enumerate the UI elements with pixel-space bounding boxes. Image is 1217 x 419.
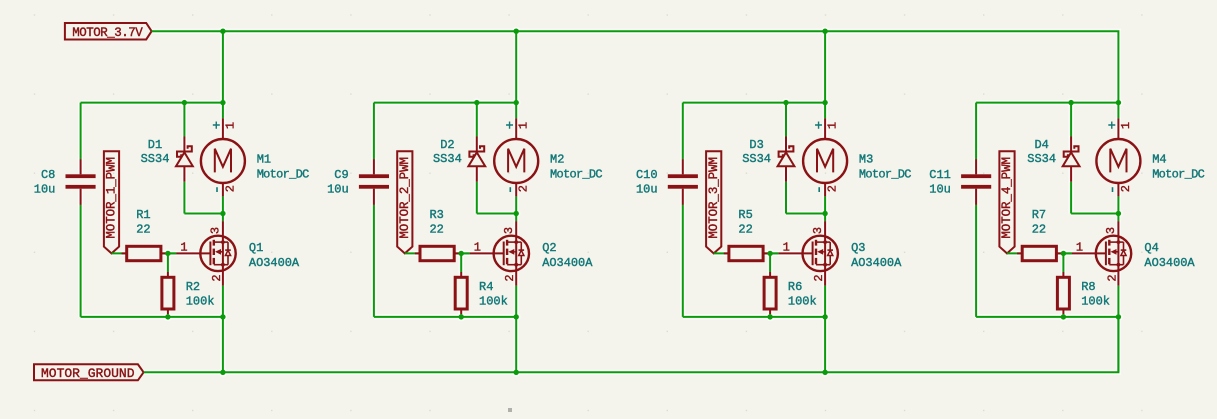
svg-text:MOTOR_4_PWM: MOTOR_4_PWM	[1000, 157, 1014, 239]
svg-text:AO3400A: AO3400A	[249, 256, 300, 270]
label D1 value SS34	[141, 138, 170, 166]
motor M1 pin 1 plus	[212, 119, 237, 134]
svg-text:M3: M3	[859, 153, 873, 167]
svg-text:R2: R2	[186, 280, 200, 294]
svg-text:D4: D4	[1034, 138, 1048, 152]
svg-text:10u: 10u	[636, 183, 658, 197]
global label MOTOR_1_PWM	[104, 151, 119, 253]
label Q1 value AO3400A	[249, 241, 300, 270]
wire lower sub-rail section 4	[976, 316, 1118, 318]
transistor Q2 AO3400A	[470, 221, 529, 286]
svg-text:D3: D3	[749, 138, 763, 152]
wire MOTOR_1_PWM to R1	[112, 252, 177, 254]
diode D4 SS34 schottky	[1063, 137, 1080, 182]
junction motor feed at top sub-rail section 4	[1116, 100, 1121, 105]
junction diode return at motor wire section 1	[220, 211, 225, 216]
svg-text:AO3400A: AO3400A	[542, 256, 593, 270]
svg-text:Motor_DC: Motor_DC	[859, 168, 912, 182]
motor M3 pin 1 plus	[814, 119, 839, 134]
wire Q1 source to lower sub-rail	[222, 286, 224, 317]
wire R6 branch	[769, 253, 771, 317]
wire R8 branch	[1062, 253, 1064, 317]
svg-text:AO3400A: AO3400A	[1144, 256, 1195, 270]
wire section 3 to ground rail	[824, 317, 826, 372]
wire gate node to Q2 gate	[461, 252, 470, 254]
svg-text:Q1: Q1	[249, 241, 263, 255]
label M4 value Motor_DC	[1152, 153, 1205, 182]
wire Q4 source to lower sub-rail	[1117, 286, 1119, 317]
svg-text:M1: M1	[257, 153, 271, 167]
Q1 pin 1 number	[180, 241, 187, 255]
svg-text:SS34: SS34	[433, 152, 462, 166]
motor M2 Motor_DC	[494, 118, 538, 196]
svg-text:1: 1	[223, 122, 237, 129]
motor M4 pin 1 plus	[1108, 119, 1133, 134]
svg-text:1: 1	[1076, 241, 1083, 255]
junction section 1 at ground rail	[220, 370, 225, 375]
wire diode D1 branch	[184, 103, 223, 214]
label M2 value Motor_DC	[550, 153, 603, 182]
junction diode D2 at top sub-rail	[474, 100, 479, 105]
wire MOTOR_3.7V top rail	[152, 31, 1119, 102]
junction section 3 at ground rail	[822, 370, 827, 375]
svg-text:MOTOR_1_PWM: MOTOR_1_PWM	[105, 157, 119, 239]
label D3 value SS34	[742, 138, 771, 166]
junction on top rail at M2 feed	[514, 29, 519, 34]
svg-text:M4: M4	[1152, 153, 1166, 167]
wire gate node to Q1 gate	[168, 252, 177, 254]
wire M2 feed from top rail	[515, 31, 517, 102]
Q4 pin 3 number	[1104, 227, 1118, 234]
wire motor M2 bottom to Q2	[515, 196, 517, 221]
svg-text:SS34: SS34	[141, 152, 170, 166]
junction Q3 source at lower sub-rail	[822, 314, 827, 319]
wire motor M4 bottom to Q4	[1117, 196, 1119, 221]
label M1 value Motor_DC	[257, 153, 310, 182]
junction gate node section 3	[767, 251, 772, 256]
svg-text:+: +	[506, 119, 514, 134]
Q3 pin 3 number	[811, 227, 825, 234]
svg-text:C11: C11	[929, 168, 951, 182]
wire section 4 to ground rail	[1117, 317, 1119, 372]
svg-text:10u: 10u	[34, 183, 56, 197]
junction motor feed at top sub-rail section 1	[220, 100, 225, 105]
svg-text:2: 2	[1105, 274, 1119, 281]
wire R2 branch	[167, 253, 169, 317]
svg-text:C10: C10	[636, 168, 658, 182]
label C8 value 10u	[34, 168, 56, 196]
capacitor C8	[66, 159, 96, 205]
global label MOTOR_GROUND	[34, 364, 144, 381]
resistor R7	[1017, 246, 1062, 260]
label C9 value 10u	[327, 168, 349, 196]
label R5 value 22	[738, 208, 752, 237]
junction diode return at motor wire section 2	[514, 211, 519, 216]
wire motor M1 top	[222, 103, 224, 119]
svg-text:SS34: SS34	[1027, 152, 1056, 166]
motor M2 pin 2 minus	[510, 185, 530, 192]
wire capacitor branch C11	[975, 103, 977, 317]
junction Q4 source at lower sub-rail	[1116, 314, 1121, 319]
Q3 pin 2 number	[812, 274, 826, 281]
svg-text:MOTOR_3_PWM: MOTOR_3_PWM	[707, 157, 721, 239]
transistor Q4 AO3400A	[1072, 221, 1131, 286]
svg-text:2: 2	[503, 274, 517, 281]
svg-text:1: 1	[826, 122, 840, 129]
svg-text:D2: D2	[440, 138, 454, 152]
motor M1 Motor_DC	[201, 118, 245, 196]
svg-text:1: 1	[783, 241, 790, 255]
junction on top rail at M1 feed	[220, 29, 225, 34]
svg-text:2: 2	[1119, 185, 1133, 192]
resistor R6	[764, 272, 776, 314]
global label MOTOR_2_PWM	[397, 151, 412, 253]
global label MOTOR_3.7V	[65, 23, 152, 40]
svg-text:3: 3	[1104, 227, 1118, 234]
wire M3 feed from top rail	[824, 31, 826, 102]
label D2 value SS34	[433, 138, 462, 166]
motor M1 pin 2 minus	[217, 185, 237, 192]
svg-text:R4: R4	[479, 280, 493, 294]
resistor R8	[1057, 272, 1069, 314]
junction diode D1 at top sub-rail	[182, 100, 187, 105]
svg-text:Motor_DC: Motor_DC	[1152, 168, 1205, 182]
junction diode return at motor wire section 4	[1116, 211, 1121, 216]
label R7 value 22	[1032, 208, 1046, 237]
svg-text:100k: 100k	[1081, 294, 1110, 308]
junction Q1 source at lower sub-rail	[220, 314, 225, 319]
svg-text:MOTOR_GROUND: MOTOR_GROUND	[41, 366, 135, 381]
svg-text:10u: 10u	[327, 183, 349, 197]
junction R6 at lower sub-rail	[767, 314, 772, 319]
Q2 pin 1 number	[474, 241, 481, 255]
svg-text:MOTOR_3.7V: MOTOR_3.7V	[72, 26, 143, 40]
junction Q2 source at lower sub-rail	[514, 314, 519, 319]
wire diode D3 branch	[786, 103, 825, 214]
junction diode D3 at top sub-rail	[783, 100, 788, 105]
svg-text:+: +	[212, 119, 220, 134]
svg-text:1: 1	[474, 241, 481, 255]
junction motor feed at top sub-rail section 2	[514, 100, 519, 105]
svg-text:2: 2	[210, 274, 224, 281]
Q2 pin 3 number	[502, 227, 516, 234]
svg-text:Q2: Q2	[542, 241, 556, 255]
label C11 value 10u	[929, 168, 951, 196]
Q1 pin 3 number	[209, 227, 223, 234]
svg-text:M2: M2	[550, 153, 564, 167]
wire capacitor branch C9	[373, 103, 375, 317]
wire Q3 source to lower sub-rail	[824, 286, 826, 317]
label R1 value 22	[136, 208, 150, 237]
Q4 pin 2 number	[1105, 274, 1119, 281]
svg-text:D1: D1	[148, 138, 162, 152]
label D4 value SS34	[1027, 138, 1056, 166]
svg-text:2: 2	[223, 185, 237, 192]
motor M4 Motor_DC	[1096, 118, 1140, 196]
wire gate node to Q3 gate	[770, 252, 779, 254]
svg-text:3: 3	[811, 227, 825, 234]
wire M1 feed from top rail	[222, 31, 224, 102]
junction section 2 at ground rail	[514, 370, 519, 375]
transistor Q1 AO3400A	[176, 221, 235, 286]
junction R4 at lower sub-rail	[459, 314, 464, 319]
svg-text:22: 22	[136, 222, 150, 236]
label R6 value 100k	[788, 280, 817, 309]
motor M4 pin 2 minus	[1113, 185, 1133, 192]
svg-text:R5: R5	[738, 208, 752, 222]
svg-text:2: 2	[826, 185, 840, 192]
wire MOTOR_GROUND bottom rail	[144, 317, 1119, 372]
resistor R4	[455, 272, 467, 314]
wire section 2 to ground rail	[515, 317, 517, 372]
label M3 value Motor_DC	[859, 153, 912, 182]
wire motor M4 top	[1117, 103, 1119, 119]
svg-text:+: +	[814, 119, 822, 134]
wire capacitor branch C10	[682, 103, 684, 317]
wire motor M2 top	[515, 103, 517, 119]
svg-text:2: 2	[517, 185, 531, 192]
svg-text:C9: C9	[334, 168, 348, 182]
junction on top rail at M3 feed	[822, 29, 827, 34]
wire lower sub-rail section 3	[683, 316, 825, 318]
svg-text:22: 22	[1032, 222, 1046, 236]
diode D1 SS34 schottky	[176, 137, 193, 182]
label Q2 value AO3400A	[542, 241, 593, 270]
svg-text:3: 3	[502, 227, 516, 234]
svg-text:22: 22	[429, 222, 443, 236]
wire motor M1 bottom to Q1	[222, 196, 224, 221]
svg-text:Q4: Q4	[1144, 241, 1158, 255]
junction R2 at lower sub-rail	[165, 314, 170, 319]
svg-text:+: +	[1108, 119, 1116, 134]
Q3 pin 1 number	[783, 241, 790, 255]
svg-text:22: 22	[738, 222, 752, 236]
svg-text:100k: 100k	[788, 294, 817, 308]
junction gate node section 4	[1061, 251, 1066, 256]
label C10 value 10u	[636, 168, 658, 196]
wire motor M3 bottom to Q3	[824, 196, 826, 221]
junction diode return at motor wire section 3	[822, 211, 827, 216]
wire top sub-rail section 3	[683, 102, 825, 104]
svg-text:MOTOR_2_PWM: MOTOR_2_PWM	[398, 157, 412, 239]
junction gate node section 1	[165, 251, 170, 256]
svg-text:1: 1	[180, 241, 187, 255]
svg-text:1: 1	[1119, 122, 1133, 129]
svg-text:C8: C8	[41, 168, 55, 182]
svg-text:1: 1	[517, 122, 531, 129]
svg-text:SS34: SS34	[742, 152, 771, 166]
global label MOTOR_3_PWM	[706, 151, 721, 253]
junction motor feed at top sub-rail section 3	[822, 100, 827, 105]
resistor R5	[724, 246, 769, 260]
svg-text:Motor_DC: Motor_DC	[257, 168, 310, 182]
wire motor M3 top	[824, 103, 826, 119]
svg-text:R3: R3	[429, 208, 443, 222]
label Q3 value AO3400A	[851, 241, 902, 270]
wire lower sub-rail section 1	[81, 316, 223, 318]
wire diode D2 branch	[477, 103, 516, 214]
svg-text:Motor_DC: Motor_DC	[550, 168, 603, 182]
label R8 value 100k	[1081, 280, 1110, 309]
Q2 pin 2 number	[503, 274, 517, 281]
resistor R3	[415, 246, 460, 260]
svg-text:10u: 10u	[929, 183, 951, 197]
svg-text:R1: R1	[136, 208, 150, 222]
svg-text:2: 2	[812, 274, 826, 281]
motor M3 Motor_DC	[803, 118, 847, 196]
resistor R1	[122, 246, 167, 260]
diode D2 SS34 schottky	[468, 137, 485, 182]
wire lower sub-rail section 2	[374, 316, 516, 318]
label R4 value 100k	[479, 280, 508, 309]
diode D3 SS34 schottky	[778, 137, 795, 182]
label Q4 value AO3400A	[1144, 241, 1195, 270]
svg-text:100k: 100k	[479, 294, 508, 308]
wire capacitor branch C8	[80, 103, 82, 317]
global label MOTOR_4_PWM	[999, 151, 1014, 253]
capacitor C11	[961, 159, 991, 205]
wire diode D4 branch	[1071, 103, 1118, 214]
svg-text:R8: R8	[1081, 280, 1095, 294]
svg-text:100k: 100k	[186, 294, 215, 308]
wire top sub-rail section 2	[374, 102, 516, 104]
junction diode D4 at top sub-rail	[1068, 100, 1073, 105]
svg-text:Q3: Q3	[851, 241, 865, 255]
Q4 pin 1 number	[1076, 241, 1083, 255]
junction gate node section 2	[459, 251, 464, 256]
wire MOTOR_2_PWM to R3	[405, 252, 470, 254]
motor M2 pin 1 plus	[506, 119, 531, 134]
transistor Q3 AO3400A	[779, 221, 838, 286]
wire Q2 source to lower sub-rail	[515, 286, 517, 317]
svg-text:AO3400A: AO3400A	[851, 256, 902, 270]
Q1 pin 2 number	[210, 274, 224, 281]
resistor R2	[162, 272, 174, 314]
wire R4 branch	[460, 253, 462, 317]
capacitor C9	[359, 159, 389, 205]
wire top sub-rail section 1	[81, 102, 223, 104]
wire top sub-rail section 4	[976, 102, 1118, 104]
capacitor C10	[668, 159, 698, 205]
wire gate node to Q4 gate	[1063, 252, 1072, 254]
wire MOTOR_3_PWM to R5	[714, 252, 779, 254]
svg-text:R7: R7	[1032, 208, 1046, 222]
label R3 value 22	[429, 208, 443, 237]
svg-text:3: 3	[209, 227, 223, 234]
svg-text:R6: R6	[788, 280, 802, 294]
junction R8 at lower sub-rail	[1061, 314, 1066, 319]
wire section 1 to ground rail	[222, 317, 224, 372]
wire MOTOR_4_PWM to R7	[1007, 252, 1072, 254]
motor M3 pin 2 minus	[819, 185, 839, 192]
label R2 value 100k	[186, 280, 215, 309]
